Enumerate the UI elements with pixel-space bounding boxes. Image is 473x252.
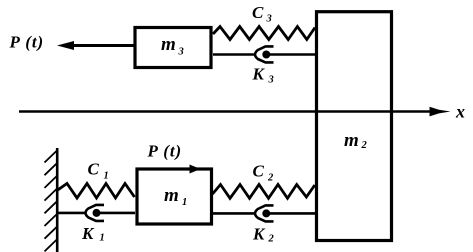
spring C3 — [213, 27, 315, 40]
mass m1 box — [137, 169, 212, 224]
x axis arrowhead — [430, 107, 451, 117]
mass m2 box — [317, 12, 392, 241]
damper K3 — [213, 46, 315, 62]
svg-text:K: K — [252, 225, 266, 244]
svg-text:C: C — [88, 160, 100, 179]
label P(t) top — [9, 33, 45, 52]
label m2 — [344, 130, 368, 151]
label K2 — [252, 225, 275, 245]
label m1 — [164, 185, 187, 208]
svg-text:2: 2 — [267, 173, 274, 184]
label C3 — [252, 3, 272, 25]
svg-text:C: C — [252, 3, 264, 22]
damper K1 — [57, 205, 135, 221]
label C2 — [253, 162, 275, 184]
svg-text:P (t): P (t) — [9, 33, 45, 52]
svg-text:2: 2 — [361, 140, 368, 151]
x axis line — [19, 110, 434, 113]
spring C2 — [213, 185, 315, 199]
damper K2 — [213, 205, 316, 221]
svg-text:x: x — [455, 102, 465, 122]
force arrow P(t) on m1 top edge (pointing right) — [190, 165, 201, 174]
svg-text:1: 1 — [100, 233, 105, 244]
svg-text:3: 3 — [266, 14, 272, 25]
svg-text:3: 3 — [268, 75, 274, 86]
svg-text:1: 1 — [182, 197, 187, 208]
svg-text:K: K — [252, 65, 266, 84]
spring C1 — [57, 184, 135, 199]
svg-text:P (t): P (t) — [147, 142, 183, 161]
label K1 — [81, 224, 105, 244]
label P(t) bottom — [147, 142, 183, 161]
svg-text:1: 1 — [104, 171, 109, 182]
svg-text:m: m — [344, 130, 359, 151]
fixed wall — [45, 148, 58, 252]
svg-text:3: 3 — [178, 47, 184, 58]
svg-text:m: m — [161, 34, 176, 55]
svg-text:K: K — [81, 224, 95, 243]
svg-text:2: 2 — [268, 234, 275, 245]
force arrow P(t) on m3 (pointing left) — [57, 41, 134, 50]
label C1 — [88, 160, 109, 182]
svg-text:C: C — [253, 162, 265, 181]
mass m3 box — [135, 28, 211, 68]
label m3 — [161, 34, 184, 58]
svg-text:m: m — [164, 185, 179, 206]
label x — [455, 102, 465, 122]
label K3 — [252, 65, 274, 86]
